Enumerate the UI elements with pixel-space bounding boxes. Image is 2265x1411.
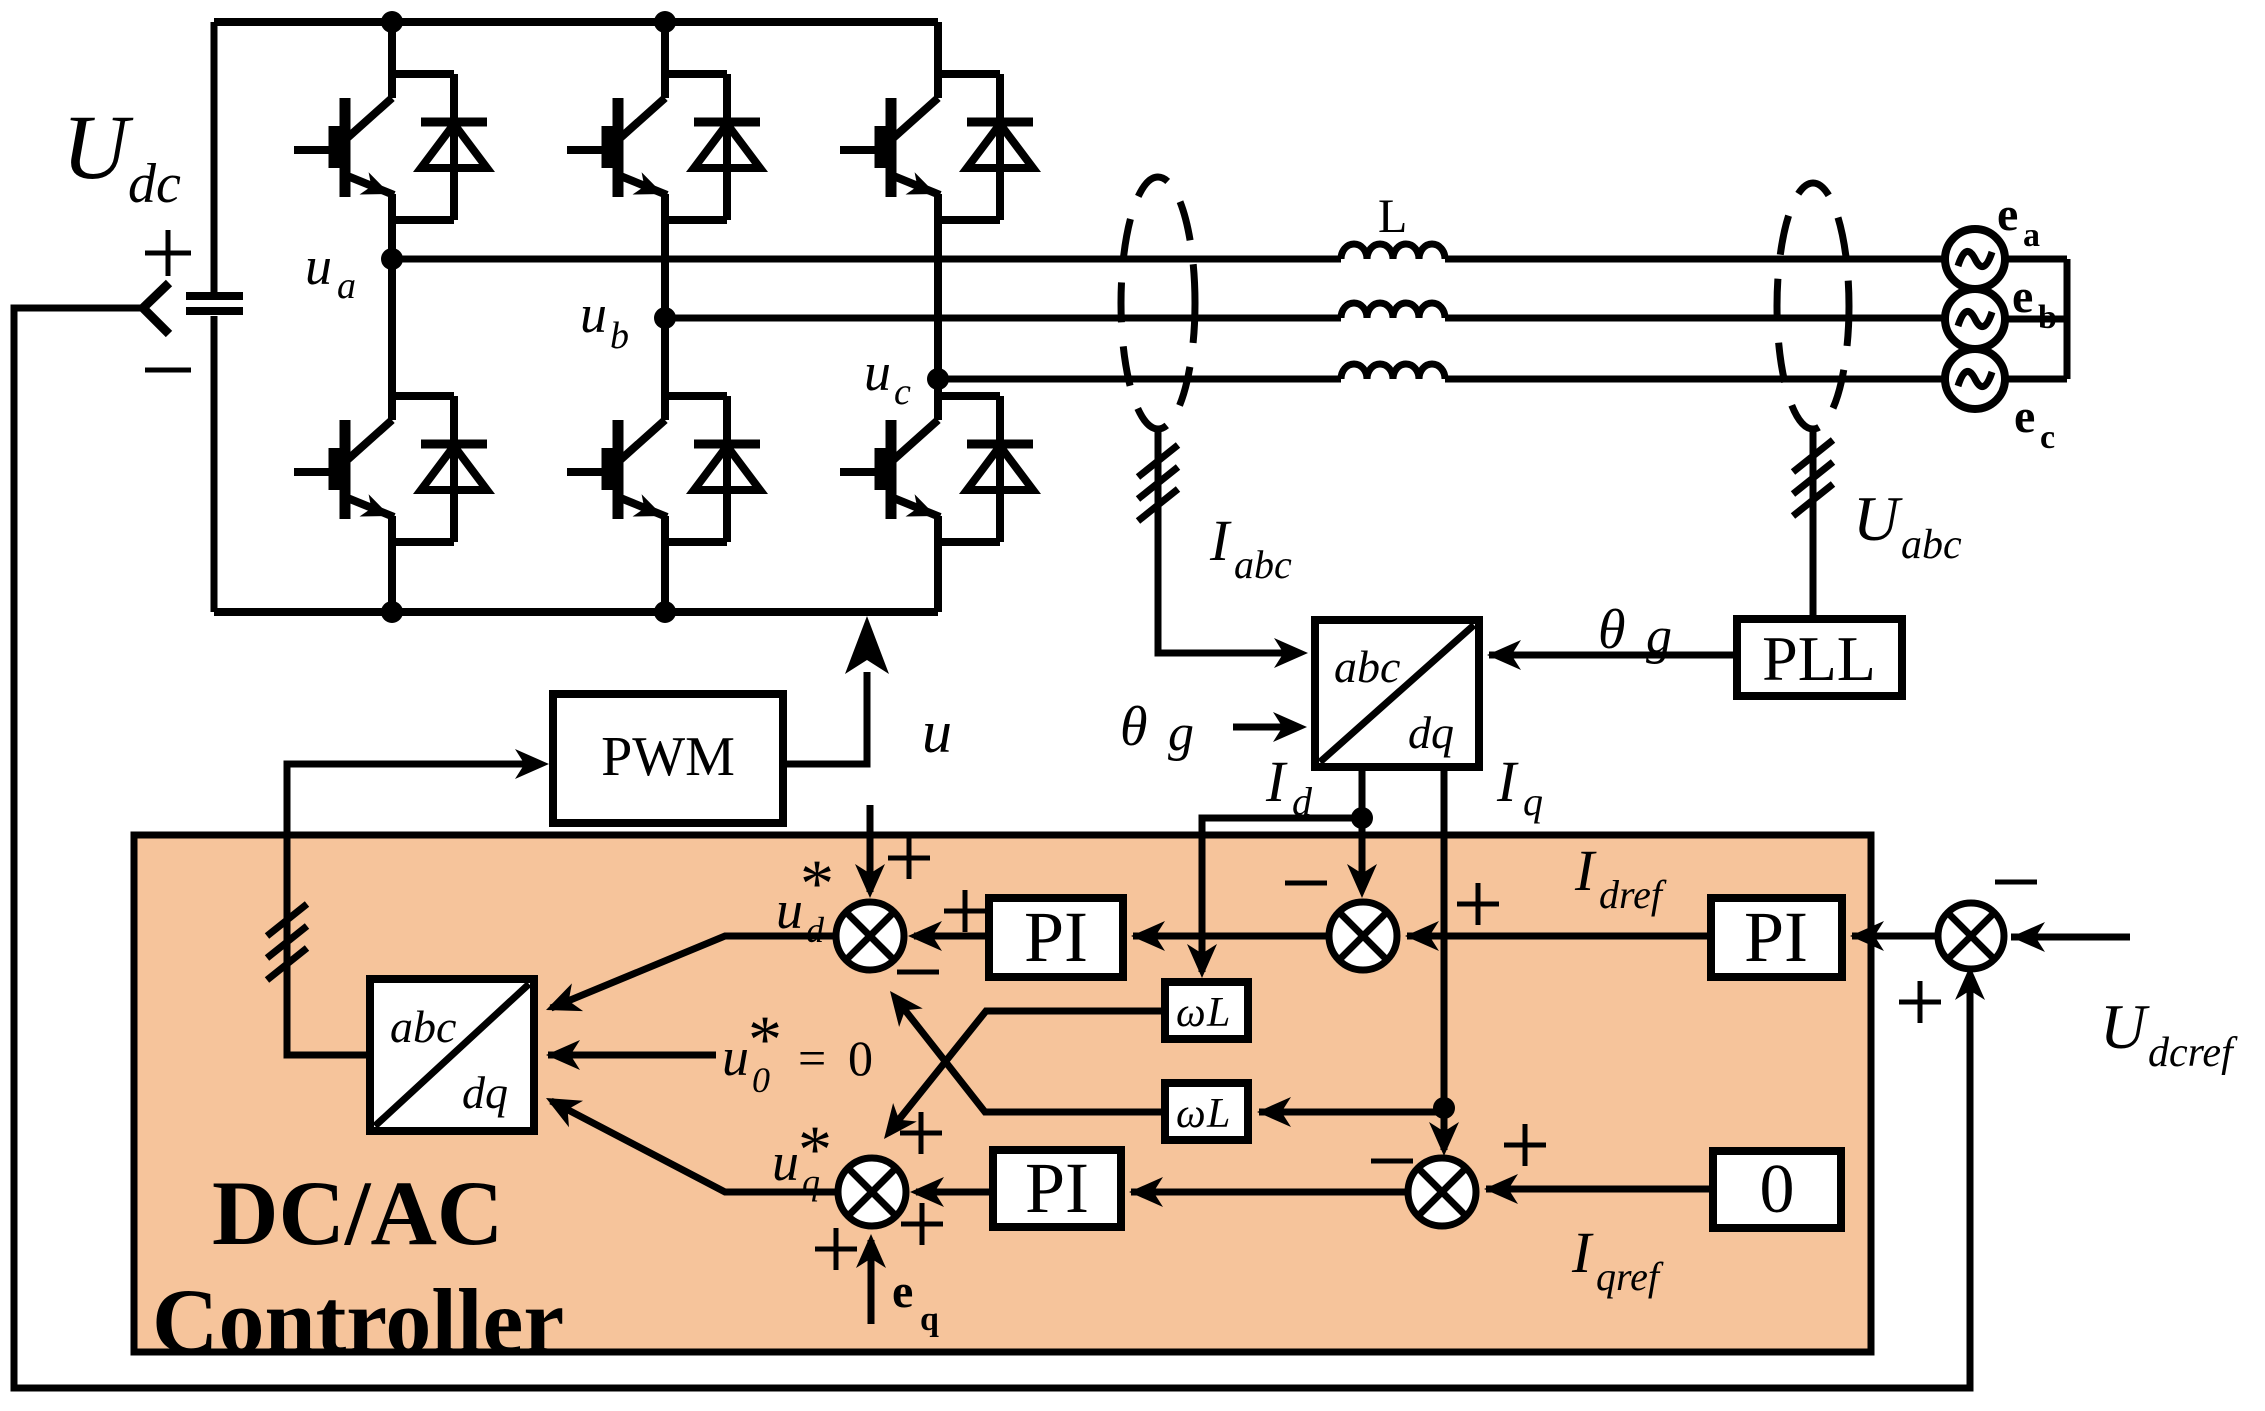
- label + (S2 right input): [1457, 883, 1499, 925]
- svg-text:e: e: [1997, 188, 2018, 241]
- wire: I_abc measurement to abc/dq transform: [1158, 429, 1300, 653]
- wire: u_0* to inverse transform: [548, 1052, 716, 1059]
- svg-text:L: L: [1206, 1091, 1230, 1137]
- label u_d*: [776, 845, 834, 950]
- wire: leg b upper section: [661, 22, 669, 78]
- arrowhead: u into inverter bridge (large): [845, 616, 889, 674]
- svg-text:U: U: [62, 96, 134, 198]
- wire: source e_b to neutral bus: [2005, 316, 2067, 323]
- label + (e_q into S3): [815, 1228, 857, 1270]
- svg-text:u: u: [776, 880, 803, 940]
- label + (S1 top input): [888, 837, 930, 879]
- svg-text:θ: θ: [1598, 599, 1626, 661]
- svg-text:q: q: [920, 1301, 939, 1338]
- svg-text:I: I: [1209, 508, 1232, 573]
- arrowhead: omega-L2 into S1 (minus, diagonal): [878, 982, 923, 1027]
- svg-text:PI: PI: [1744, 897, 1808, 977]
- label wL (block 2): [1176, 1091, 1230, 1137]
- svg-text:abc: abc: [1334, 641, 1400, 692]
- arrowhead: into S1 right (plus input): [908, 921, 942, 951]
- wire: leg c lower section: [934, 542, 942, 612]
- label I_qref: [1571, 1220, 1664, 1299]
- voltage sensor ellipse (U_abc measurement): [1777, 183, 1849, 429]
- label e_a: [1997, 188, 2040, 254]
- arrowhead: u_q* into inverse transform: [539, 1085, 583, 1127]
- wire: u_q* to inverse transform: [551, 1101, 838, 1192]
- inductor La: [1341, 244, 1445, 259]
- capacitor Cdc plate bottom: [186, 307, 243, 315]
- svg-text:I: I: [1574, 838, 1597, 903]
- wire: omega-L1 output cross-couple to S3: [893, 1011, 1165, 1127]
- label + (DC link polarity): [145, 230, 191, 276]
- wire: phase a line (inverter to inductor): [392, 256, 1341, 263]
- arrowhead: I_q into omega-L2 block: [1257, 1097, 1291, 1127]
- arrowhead: omega-L1 into S3 (plus, diagonal): [872, 1103, 917, 1148]
- wire: inverse transform output to PWM: [287, 764, 541, 1055]
- label − (DC link polarity): [145, 368, 191, 373]
- svg-text:dcref: dcref: [2148, 1030, 2238, 1076]
- wire: PI3 output (I_dref) to S2: [1407, 933, 1711, 940]
- three-phase slash marks on I_abc wire: [1138, 445, 1178, 521]
- current sensor ellipse (I_abc measurement): [1121, 177, 1195, 429]
- wire: PI2 output to S3: [916, 1189, 993, 1196]
- PI block PI3 (DC voltage regulator): [1711, 898, 1842, 977]
- wire: phase c line (inverter to inductor): [938, 376, 1341, 383]
- svg-text:*: *: [800, 845, 834, 921]
- wire: PWM output u to inverter bridge: [783, 672, 867, 764]
- AC source e_b: [1945, 289, 2005, 349]
- AC source e_c: [1945, 349, 2005, 409]
- wire: I_q output stub down to branch node: [1441, 767, 1448, 1108]
- arrowhead: u_0* into inverse transform: [546, 1040, 580, 1070]
- svg-text:e: e: [892, 1265, 913, 1318]
- arrowhead: into S4 right (plus input): [1484, 1174, 1518, 1204]
- wire: source e_c to neutral bus: [2005, 376, 2067, 383]
- wire: source e_a to neutral bus: [2005, 256, 2067, 263]
- svg-text:u: u: [922, 699, 952, 765]
- svg-text:PWM: PWM: [601, 726, 735, 788]
- PI block PI1 (d-axis current regulator): [989, 898, 1123, 977]
- svg-text:b: b: [610, 315, 629, 357]
- label e_b: [2012, 270, 2057, 336]
- arrowhead: into S2 right (plus input): [1405, 921, 1439, 951]
- arrowhead: feedback into summing junction S5 (bottom, +): [1955, 966, 1985, 1000]
- svg-text:qref: qref: [1596, 1254, 1664, 1299]
- wire: leg a lower section: [388, 542, 396, 612]
- label + (omega-L1 into S3): [900, 1112, 942, 1154]
- svg-text:dc: dc: [128, 153, 181, 215]
- wire: leg b mid section: [661, 220, 669, 396]
- PWM block: [553, 694, 783, 823]
- arrowhead: into PI1 right edge: [1131, 921, 1165, 951]
- label I_abc: [1209, 508, 1292, 587]
- wire: DC bus left (bottom section below capacitor): [211, 316, 218, 612]
- svg-text:u: u: [772, 1132, 799, 1192]
- svg-text:dq: dq: [462, 1067, 508, 1118]
- node: I_d branch junction: [1351, 807, 1373, 829]
- omega-L block 1 (wL coupling, d-axis): [1165, 982, 1248, 1039]
- summing junction S5 (U_dc comparison): [1938, 903, 2004, 969]
- arrowhead: into S5 right (minus input): [2011, 922, 2045, 952]
- label + (S5 bottom input): [1899, 981, 1941, 1023]
- wire: phase c line (inductor to source): [1445, 376, 1946, 383]
- label u_0* = 0: [722, 1001, 873, 1100]
- 0 reference block (I_qref): [1713, 1151, 1841, 1228]
- node: bottom rail / leg b junction: [654, 601, 676, 623]
- wire: grid neutral bus: [2064, 259, 2071, 379]
- wire: S4 output to PI2: [1131, 1189, 1408, 1196]
- label + (S1 right input): [944, 890, 986, 932]
- wire: I_q branch to omega-L2: [1259, 1109, 1444, 1116]
- dq/abc inverse transform block: [370, 979, 534, 1131]
- wire: u_d* to inverse transform: [551, 936, 836, 1008]
- label wL (block 1): [1176, 990, 1230, 1036]
- svg-text:0: 0: [848, 1030, 873, 1086]
- wire: PI1 output to S1: [914, 933, 989, 940]
- label u_a: [305, 236, 356, 307]
- wire: S2 output to PI1: [1133, 933, 1329, 940]
- node: bottom rail / leg a junction: [381, 601, 403, 623]
- summing junction S3 (u_q* node): [838, 1158, 906, 1226]
- arrowhead: into PWM left edge: [515, 749, 549, 779]
- label u_q*: [772, 1111, 832, 1202]
- inductor Lb: [1341, 303, 1445, 318]
- svg-text:I: I: [1265, 749, 1288, 814]
- wire: DC-link voltage feedback loop (left, bottom, right up to summing junction S5): [14, 308, 1970, 1388]
- label e_c: [2014, 390, 2055, 456]
- arrowhead: theta_g into abc/dq left edge: [1273, 712, 1307, 742]
- wire: leg a mid section: [388, 220, 396, 396]
- svg-text:e: e: [2014, 390, 2035, 443]
- svg-text:U: U: [1853, 483, 1903, 554]
- arrowhead: into S3 right (plus input): [910, 1177, 944, 1207]
- svg-text:u: u: [722, 1027, 749, 1087]
- svg-text:*: *: [748, 1001, 782, 1077]
- arrowhead: into PI2 right edge: [1129, 1177, 1163, 1207]
- label − (S5 right input): [1995, 880, 2037, 885]
- svg-text:dref: dref: [1599, 872, 1667, 917]
- svg-text:u: u: [305, 236, 332, 296]
- PLL block: [1737, 619, 1902, 696]
- label − (omega-L2 into S1): [897, 970, 939, 975]
- wire: leg c upper section: [934, 22, 942, 78]
- svg-text:a: a: [2023, 217, 2040, 254]
- svg-text:L: L: [1206, 990, 1230, 1036]
- svg-text:g: g: [1168, 705, 1194, 762]
- wire: PLL output theta_g to abc/dq block: [1489, 652, 1737, 659]
- label u_b: [580, 284, 629, 357]
- svg-text:c: c: [2040, 419, 2055, 456]
- label U_dc: [62, 96, 181, 215]
- omega-L block 2 (wL coupling, q-axis): [1165, 1083, 1248, 1140]
- wire: theta_g input to abc/dq (lower left): [1233, 724, 1299, 731]
- svg-text:PI: PI: [1024, 897, 1088, 977]
- abc/dq transform block (current measurement): [1315, 620, 1479, 767]
- svg-text:a: a: [337, 265, 356, 307]
- wire: e_q feed-forward into S3 from below: [868, 1240, 875, 1324]
- node: phase b output u_b: [654, 307, 676, 329]
- wire: phase a line (inductor to source): [1445, 256, 1946, 263]
- wire: omega-L2 output cross-couple to S1: [897, 1000, 1165, 1112]
- arrowhead: I_abc into abc/dq block: [1274, 638, 1308, 668]
- wire: U_dc sense input to S5: [2011, 934, 2130, 941]
- wire: phase b line (inverter to inductor): [665, 315, 1341, 322]
- svg-text:PLL: PLL: [1762, 623, 1876, 694]
- wire: U_abc measurement to PLL: [1810, 429, 1817, 619]
- wire: phase b line (inductor to source): [1445, 315, 1946, 322]
- inductor Lc: [1341, 364, 1445, 379]
- transistor Q3 (IGBT) with anti-parallel diode D3: [567, 74, 760, 220]
- svg-text:θ: θ: [1120, 696, 1148, 758]
- node: I_q branch junction: [1433, 1097, 1455, 1119]
- transistor Q2 (IGBT) with anti-parallel diode D2: [294, 396, 487, 542]
- svg-text:L: L: [1378, 190, 1407, 243]
- AC source e_a: [1945, 229, 2005, 289]
- wire: DC bus top rail: [214, 18, 938, 26]
- arrowhead: I_q into S4 (minus input): [1429, 1122, 1459, 1156]
- wire: S5 output to PI3: [1852, 933, 1939, 940]
- svg-text:d: d: [1292, 779, 1313, 824]
- summing junction S4 (I_q error): [1408, 1158, 1476, 1226]
- wire: I_d down into summing junction S2: [1359, 818, 1366, 890]
- svg-text:c: c: [894, 371, 911, 413]
- arrowhead: I_d into S2 (minus input): [1347, 864, 1377, 898]
- transistor Q1 (IGBT) with anti-parallel diode D1: [294, 74, 487, 220]
- svg-text:I: I: [1571, 1220, 1594, 1285]
- label I_dref: [1574, 838, 1667, 917]
- arrowhead: I_d into omega-L1 block: [1187, 944, 1217, 978]
- wire: 0 block output to S4: [1486, 1186, 1713, 1193]
- label I_d: [1265, 749, 1313, 824]
- three-phase slash marks on U_abc wire: [1793, 440, 1833, 516]
- PI block PI2 (q-axis current regulator): [993, 1150, 1121, 1227]
- svg-text:dq: dq: [1408, 707, 1454, 758]
- arrowhead: u_d* into inverse transform: [540, 983, 583, 1024]
- arrowhead: e_q into S3 bottom (plus input): [856, 1234, 886, 1268]
- wire: leg b lower section: [661, 542, 669, 612]
- wire: DC bus left (top section above capacitor): [211, 22, 218, 293]
- arrowhead: into S1 top (plus input): [855, 864, 885, 898]
- node: phase a output u_a: [381, 248, 403, 270]
- svg-text:abc: abc: [1234, 542, 1292, 587]
- arrowhead: into PI3 right edge: [1850, 921, 1884, 951]
- transistor Q6 (IGBT) with anti-parallel diode D6: [840, 396, 1033, 542]
- svg-text:u: u: [580, 284, 607, 344]
- svg-text:=: =: [798, 1030, 826, 1086]
- svg-text:U: U: [2100, 991, 2150, 1062]
- svg-text:e: e: [2012, 270, 2033, 323]
- wire: I_d branch to omega-L1: [1202, 818, 1362, 972]
- label − (I_d into S2): [1285, 881, 1327, 886]
- svg-text:PI: PI: [1025, 1148, 1089, 1228]
- svg-text:*: *: [798, 1111, 832, 1187]
- svg-text:Controller: Controller: [152, 1270, 564, 1372]
- transistor Q5 (IGBT) with anti-parallel diode D5: [840, 74, 1033, 220]
- label − (I_q into S4): [1371, 1159, 1413, 1164]
- node: top rail / leg b junction: [654, 11, 676, 33]
- svg-text:ω: ω: [1176, 1091, 1206, 1137]
- label + (S4 right input): [1504, 1124, 1546, 1166]
- svg-text:abc: abc: [390, 1001, 456, 1052]
- label theta_g (PLL output): [1598, 599, 1672, 665]
- controller region background (DC/AC Controller box): [134, 835, 1871, 1352]
- wire: leg a upper section: [388, 22, 396, 78]
- label u_c: [864, 342, 911, 413]
- three-phase slash marks on transform-PWM wire: [267, 904, 307, 980]
- wire: DC bus bottom rail: [214, 608, 938, 616]
- label + (S3 right input): [901, 1203, 943, 1245]
- svg-text:q: q: [1523, 779, 1543, 824]
- svg-text:u: u: [864, 342, 891, 402]
- wire: I_q down into summing junction S4: [1441, 1108, 1448, 1150]
- wire: feed-forward input into S1 from top: [867, 805, 874, 892]
- label theta_g (abc/dq input): [1120, 696, 1194, 762]
- wire: I_d output stub: [1359, 767, 1366, 818]
- summing junction S1 (u_d* node): [836, 902, 904, 970]
- summing junction S2 (I_d error): [1329, 902, 1397, 970]
- transistor Q4 (IGBT) with anti-parallel diode D4: [567, 396, 760, 542]
- arrowhead: theta_g into abc/dq block (right edge): [1487, 640, 1521, 670]
- svg-text:ω: ω: [1176, 990, 1206, 1036]
- node: phase c output u_c: [927, 368, 949, 390]
- svg-text:g: g: [1646, 608, 1672, 665]
- svg-text:I: I: [1496, 749, 1519, 814]
- voltage probe chevron at DC link: [143, 283, 169, 334]
- label e_q: [892, 1265, 939, 1338]
- capacitor Cdc plate top: [186, 292, 243, 300]
- wire: leg c mid section: [934, 220, 942, 396]
- label U_abc: [1853, 483, 1962, 568]
- node: top rail / leg a junction: [381, 11, 403, 33]
- svg-text:DC/AC: DC/AC: [212, 1162, 503, 1264]
- svg-text:0: 0: [1760, 1151, 1795, 1228]
- label I_q: [1496, 749, 1543, 824]
- svg-text:abc: abc: [1901, 522, 1962, 568]
- label U_dcref: [2100, 991, 2238, 1076]
